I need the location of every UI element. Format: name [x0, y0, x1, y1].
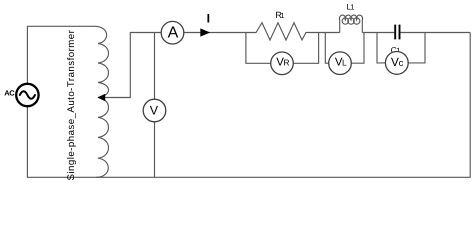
svg-text:I: I — [207, 11, 210, 25]
svg-text:c: c — [399, 58, 404, 69]
svg-text:L: L — [342, 58, 347, 68]
svg-text:R: R — [283, 57, 289, 67]
svg-text:V: V — [150, 103, 159, 117]
svg-text:1: 1 — [350, 2, 354, 11]
svg-text:A: A — [168, 25, 179, 42]
svg-text:Single-phase_Auto-Transformer: Single-phase_Auto-Transformer — [66, 29, 77, 180]
svg-text:AC: AC — [4, 89, 15, 98]
svg-text:1: 1 — [280, 11, 284, 20]
